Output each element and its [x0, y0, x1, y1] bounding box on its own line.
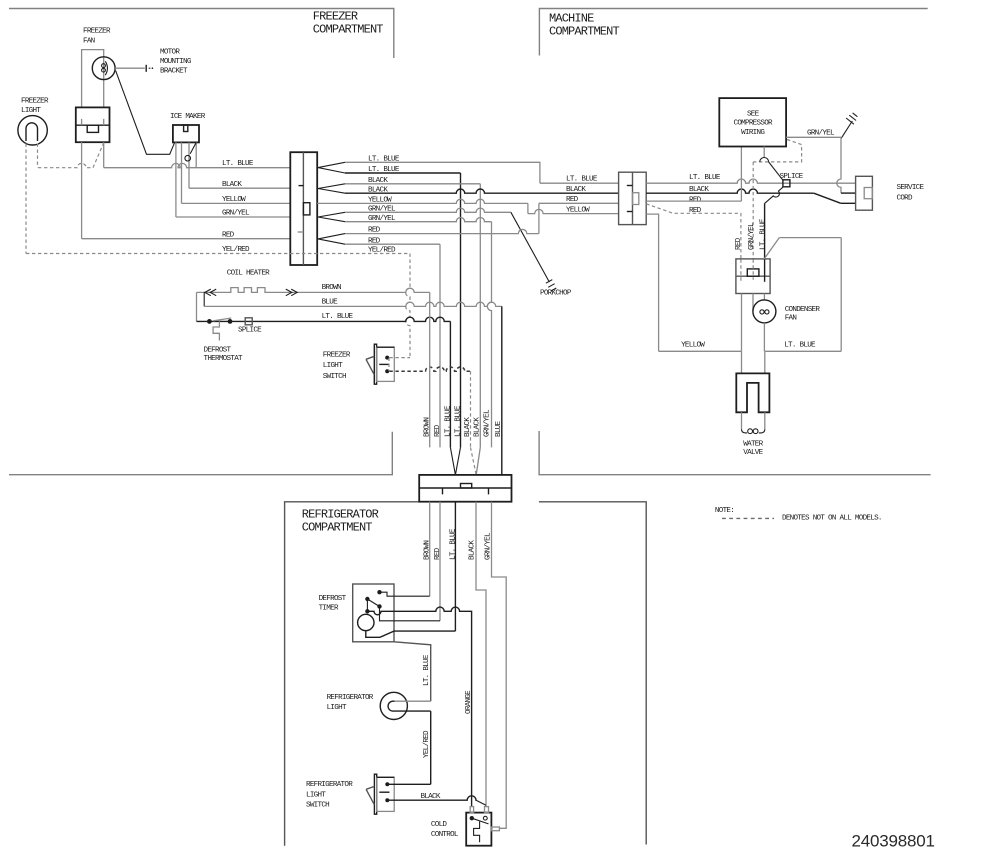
svg-text:240398801: 240398801 [852, 832, 935, 851]
svg-text:MACHINE: MACHINE [549, 11, 594, 25]
svg-text:BLACK: BLACK [469, 540, 477, 560]
svg-text:COMPARTMENT: COMPARTMENT [313, 23, 384, 37]
svg-text:YELLOW: YELLOW [222, 196, 246, 204]
svg-text:LIGHT: LIGHT [323, 362, 343, 370]
svg-text:THERMOSTAT: THERMOSTAT [204, 355, 244, 363]
svg-text:LT. BLUE: LT. BLUE [454, 405, 462, 437]
svg-text:MOUNTING: MOUNTING [160, 58, 192, 66]
svg-text:BRACKET: BRACKET [160, 68, 188, 76]
svg-text:GRN/YEL: GRN/YEL [484, 532, 492, 560]
svg-text:COMPRESSOR: COMPRESSOR [734, 120, 774, 128]
svg-text:YELLOW: YELLOW [681, 342, 705, 350]
svg-text:SWITCH: SWITCH [306, 802, 329, 810]
svg-text:LT. BLUE: LT. BLUE [222, 160, 254, 168]
svg-text:SPLICE: SPLICE [238, 326, 262, 334]
svg-text:LIGHT: LIGHT [306, 791, 326, 799]
svg-text:BLUE: BLUE [495, 420, 503, 437]
svg-text:SWITCH: SWITCH [323, 373, 346, 381]
svg-text:BLACK: BLACK [222, 181, 242, 189]
svg-text:YELLOW: YELLOW [566, 207, 590, 215]
svg-text:WATER: WATER [743, 440, 763, 448]
svg-text:WIRING: WIRING [741, 129, 765, 137]
svg-text:BLACK: BLACK [464, 417, 472, 437]
svg-text:LT. BLUE: LT. BLUE [445, 405, 453, 437]
svg-text:PORKCHOP: PORKCHOP [540, 289, 572, 297]
svg-text:RED: RED [434, 547, 442, 560]
svg-text:ORANGE: ORANGE [465, 690, 473, 714]
svg-text:FAN: FAN [785, 315, 797, 323]
svg-text:RED: RED [434, 424, 442, 437]
svg-text:GRN/YEL: GRN/YEL [222, 210, 250, 218]
svg-text:MOTOR: MOTOR [160, 49, 180, 57]
svg-text:DEFROST: DEFROST [319, 595, 347, 603]
svg-text:CORD: CORD [897, 195, 914, 203]
svg-text:SEE: SEE [747, 110, 760, 118]
svg-text:BLACK: BLACK [566, 186, 586, 194]
svg-text:ICE MAKER: ICE MAKER [170, 113, 206, 121]
svg-text:BROWN: BROWN [424, 541, 432, 560]
svg-text:FREEZER: FREEZER [83, 28, 111, 36]
svg-text:RED: RED [735, 237, 743, 250]
svg-text:BLUE: BLUE [322, 298, 339, 306]
svg-text:CONTROL: CONTROL [431, 831, 459, 839]
svg-text:GRN/YEL: GRN/YEL [484, 409, 492, 437]
svg-text:LT. BLUE: LT. BLUE [322, 313, 354, 321]
svg-text:COMPARTMENT: COMPARTMENT [302, 521, 373, 535]
svg-text:RED: RED [222, 231, 235, 239]
svg-text:FREEZER: FREEZER [323, 352, 351, 360]
svg-text:LIGHT: LIGHT [327, 704, 347, 712]
svg-text:BROWN: BROWN [322, 284, 341, 292]
svg-text:FAN: FAN [83, 38, 95, 46]
svg-text:DENOTES NOT ON ALL MODELS.: DENOTES NOT ON ALL MODELS. [782, 514, 882, 522]
svg-text:GRN/YEL: GRN/YEL [807, 130, 835, 138]
svg-text:VALVE: VALVE [743, 449, 763, 457]
svg-text:LT. BLUE: LT. BLUE [759, 218, 767, 250]
svg-text:COLD: COLD [431, 821, 448, 829]
svg-text:BLACK: BLACK [474, 417, 482, 437]
svg-text:COMPARTMENT: COMPARTMENT [549, 24, 620, 38]
svg-text:GRN/YEL: GRN/YEL [748, 222, 756, 250]
svg-text:LT. BLUE: LT. BLUE [784, 342, 816, 350]
svg-text:REFRIGERATOR: REFRIGERATOR [327, 694, 374, 702]
svg-text:FREEZER: FREEZER [21, 98, 49, 106]
svg-text:DEFROST: DEFROST [204, 347, 232, 355]
svg-text:COIL HEATER: COIL HEATER [227, 269, 270, 277]
svg-text:CONDENSER: CONDENSER [785, 306, 821, 314]
svg-text:BROWN: BROWN [424, 418, 432, 437]
svg-text:SPLICE: SPLICE [780, 173, 804, 181]
svg-text:FREEZER: FREEZER [313, 10, 358, 24]
svg-text:REFRIGERATOR: REFRIGERATOR [302, 508, 379, 522]
svg-text:REFRIGERATOR: REFRIGERATOR [306, 781, 353, 789]
svg-text:LT. BLUE: LT. BLUE [689, 174, 721, 182]
svg-text:RED: RED [566, 196, 579, 204]
svg-text:LT. BLUE: LT. BLUE [423, 654, 431, 686]
svg-text:SERVICE: SERVICE [897, 184, 925, 192]
svg-text:LT. BLUE: LT. BLUE [449, 528, 457, 560]
svg-text:NOTE:: NOTE: [715, 507, 734, 515]
svg-text:YEL/RED: YEL/RED [423, 730, 431, 758]
svg-text:TIMER: TIMER [319, 605, 339, 613]
svg-text:LIGHT: LIGHT [21, 107, 41, 115]
svg-text:LT. BLUE: LT. BLUE [566, 176, 598, 184]
